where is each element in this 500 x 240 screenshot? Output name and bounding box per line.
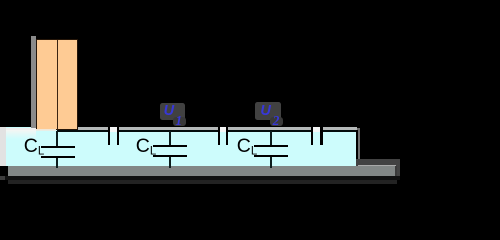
series capacitor CS3 right plate [320,126,322,145]
series capacitor CS2 right plate [226,126,228,145]
wire: node 1 vertical from driver to C1 top plate [56,131,58,146]
capacitor C1 top plate [41,146,75,148]
substrate bar gray body [8,166,398,176]
driver block right-side black tab [79,69,84,78]
capacitor C3 bottom plate [254,155,288,157]
substrate bar charcoal right block [356,159,400,181]
wire: C3 bottom plate to substrate [270,157,272,168]
white left end of highlight line [0,128,36,130]
capacitor C2 bottom plate [153,155,187,157]
label C_L for C2 [136,135,157,158]
right border corner piece [356,130,358,166]
series capacitor CS1 right plate [117,126,119,145]
substrate bar black separator [4,176,400,180]
driver block bottom-left fade to band [36,129,56,131]
driver block outline [36,39,79,130]
substrate bar charcoal front face [8,180,398,185]
pale left zone of band [0,130,36,139]
series capacitor CS1 white gap [110,127,116,132]
driver block middle electrode line [57,40,59,130]
capacitor C3 top plate [254,145,288,147]
wire: node 3 vertical from line to C3 top plate [270,131,272,146]
series capacitor CS1 left plate [108,126,110,145]
node voltage label U2 subscript halo [270,117,283,126]
substrate bar light top edge (right portion) [358,165,396,167]
capacitor C2 top plate [153,145,187,147]
substrate bar right-end dark edge [395,166,398,176]
series capacitor CS2 left plate [218,126,220,145]
series capacitor CS2 white gap [220,127,226,132]
wire: node 2 vertical from line to C2 top plate [169,131,171,146]
node voltage label U2 subscript 2 [273,113,280,129]
node voltage label U1 subscript 1 [175,113,182,129]
node voltage label U2 [260,103,270,119]
node voltage label U2 halo box [255,102,281,120]
right gray border of cyan band [357,128,360,166]
wire: C2 bottom plate to substrate [169,157,171,168]
driver gray electrode strip [31,36,36,128]
wire: C1 bottom plate to substrate [56,158,58,168]
substrate bar left gray nub [0,176,5,180]
node voltage label U1 halo box [160,103,185,120]
capacitor C1 bottom plate [41,156,75,158]
label C_L for C3 [237,135,258,158]
node voltage label U1 subscript halo [173,117,186,126]
cyan dielectric band [0,127,356,165]
series capacitor CS3 left plate [311,126,313,145]
label C_L for C1 [24,135,45,158]
left edge strip of cyan band [0,127,6,165]
node voltage label U1 [164,103,174,119]
series capacitor CS3 white gap [313,127,320,132]
top conductor wire (black) [57,130,358,132]
highlight line above top conductor [36,127,357,129]
driver block orange body [37,40,77,129]
